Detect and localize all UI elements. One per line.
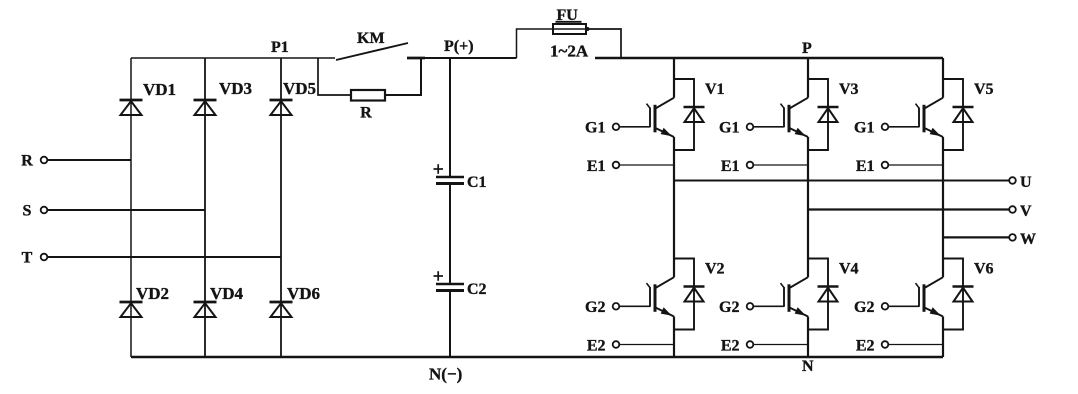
wire inverter leg 1 upper collector <box>673 58 675 98</box>
svg-text:C2: C2 <box>467 281 487 298</box>
svg-text:VD4: VD4 <box>210 284 244 303</box>
pin G2 of V4 <box>719 299 784 316</box>
pin E1 of V5 <box>856 158 943 175</box>
resistor R <box>351 90 385 122</box>
wire inverter leg 2 lower emitter <box>807 317 809 358</box>
svg-text:G2: G2 <box>854 299 874 316</box>
capacitor C1 <box>434 164 487 191</box>
svg-text:E2: E2 <box>721 338 740 355</box>
svg-text:E2: E2 <box>587 338 606 355</box>
wire FU riser right <box>586 27 622 58</box>
svg-text:V1: V1 <box>705 81 725 98</box>
svg-text:E1: E1 <box>721 158 740 175</box>
svg-text:W: W <box>1020 231 1036 248</box>
svg-text:N(−): N(−) <box>429 365 462 384</box>
terminal T <box>22 250 48 267</box>
wire T phase lead <box>48 256 282 258</box>
terminal U <box>1009 174 1032 191</box>
pin E2 of V6 <box>856 338 943 355</box>
svg-text:G2: G2 <box>719 299 739 316</box>
svg-text:S: S <box>23 203 32 220</box>
wire rectifier column 1 <box>130 58 132 357</box>
node N <box>802 358 814 375</box>
pin G1 of V1 <box>585 120 650 137</box>
terminal V <box>1009 203 1032 220</box>
diode VD4 <box>194 284 244 317</box>
wire S phase lead <box>48 209 206 211</box>
wire rectifier column 2 <box>204 58 206 357</box>
wire inverter leg 1 midsection <box>673 137 675 277</box>
svg-text:KM: KM <box>357 30 385 47</box>
pin G2 of V2 <box>585 299 650 316</box>
svg-text:G2: G2 <box>585 299 605 316</box>
wire inverter leg 2 upper collector <box>807 58 809 98</box>
wire R branch left <box>318 58 351 95</box>
svg-text:VD3: VD3 <box>219 79 252 98</box>
fuse FU <box>550 7 589 61</box>
svg-text:R: R <box>360 105 372 122</box>
wire R branch right <box>385 58 421 95</box>
freewheel diode of V1 <box>684 107 705 122</box>
svg-text:V4: V4 <box>839 261 859 278</box>
svg-text:VD6: VD6 <box>287 284 320 303</box>
wire inverter leg 1 lower emitter <box>673 317 675 358</box>
node P <box>802 40 812 57</box>
svg-text:VD1: VD1 <box>143 80 176 99</box>
wire top rail P segment <box>595 57 943 59</box>
node P1 <box>271 39 289 56</box>
pin E2 of V2 <box>587 338 674 355</box>
wire top rail P1 segment <box>131 57 335 59</box>
pin G2 of V6 <box>854 299 919 316</box>
contactor KM <box>336 30 408 60</box>
pin E2 of V4 <box>721 338 808 355</box>
svg-text:P1: P1 <box>271 39 289 56</box>
svg-text:U: U <box>1020 174 1032 191</box>
pin G1 of V5 <box>854 120 919 137</box>
svg-text:N: N <box>802 358 814 375</box>
pin E1 of V1 <box>587 158 674 175</box>
transistor V6 <box>916 261 994 317</box>
freewheel diode of V6 <box>953 287 974 302</box>
wire rail KM to FU riser <box>425 57 517 59</box>
svg-text:VD5: VD5 <box>283 79 316 98</box>
diode VD6 <box>270 284 321 317</box>
svg-text:G1: G1 <box>719 120 739 137</box>
transistor V5 <box>916 81 994 137</box>
diode VD2 <box>120 284 170 317</box>
wire KM fixed contact <box>407 57 425 60</box>
svg-text:P(+): P(+) <box>444 38 474 55</box>
svg-text:V3: V3 <box>839 81 859 98</box>
svg-text:1~2A: 1~2A <box>550 42 589 61</box>
wire FU riser left <box>517 29 554 58</box>
svg-text:V2: V2 <box>705 261 725 278</box>
wire diode bracket of V6 <box>943 259 963 330</box>
freewheel diode of V3 <box>818 107 839 122</box>
svg-text:C1: C1 <box>467 174 487 191</box>
svg-text:VD2: VD2 <box>136 284 169 303</box>
diode VD1 <box>120 80 177 115</box>
terminal R <box>21 153 47 170</box>
wire bottom rail N <box>131 356 943 358</box>
svg-text:T: T <box>22 250 33 267</box>
svg-text:E2: E2 <box>856 338 875 355</box>
transistor V2 <box>647 261 725 317</box>
pin G1 of V3 <box>719 120 784 137</box>
wire inverter leg 2 midsection <box>807 137 809 277</box>
freewheel diode of V4 <box>818 287 839 302</box>
svg-text:E1: E1 <box>587 158 606 175</box>
wire output V <box>808 208 1010 210</box>
transistor V4 <box>781 261 859 317</box>
wire inverter leg 3 lower emitter <box>942 317 944 358</box>
svg-text:V6: V6 <box>974 261 994 278</box>
terminal W <box>1009 231 1036 248</box>
svg-text:R: R <box>21 153 33 170</box>
svg-text:G1: G1 <box>585 120 605 137</box>
freewheel diode of V5 <box>953 107 974 122</box>
svg-text:G1: G1 <box>854 120 874 137</box>
wire R phase lead <box>48 159 132 161</box>
svg-text:V: V <box>1020 203 1032 220</box>
wire diode bracket of V3 <box>808 79 828 150</box>
wire inverter leg 3 upper collector <box>942 58 944 98</box>
transistor V3 <box>781 81 859 137</box>
terminal S <box>23 203 48 220</box>
transistor V1 <box>647 81 725 137</box>
node P(+) <box>444 38 474 55</box>
wire diode bracket of V2 <box>674 259 694 330</box>
wire output U <box>674 180 1010 182</box>
svg-text:P: P <box>802 40 812 57</box>
wire DC bus lower <box>449 292 451 357</box>
diode VD3 <box>194 79 253 115</box>
svg-text:V5: V5 <box>974 81 994 98</box>
diode VD5 <box>270 79 317 115</box>
wire diode bracket of V1 <box>674 79 694 150</box>
wire diode bracket of V4 <box>808 259 828 330</box>
pin E1 of V3 <box>721 158 808 175</box>
wire DC bus upper <box>449 58 451 176</box>
freewheel diode of V2 <box>684 287 705 302</box>
wire inverter leg 3 midsection <box>942 137 944 277</box>
svg-text:E1: E1 <box>856 158 875 175</box>
wire diode bracket of V5 <box>943 79 963 150</box>
capacitor C2 <box>434 271 487 298</box>
wire output W <box>943 236 1010 238</box>
wire DC bus middle <box>449 185 451 283</box>
wire rectifier column 3 <box>280 58 282 357</box>
node N(-) <box>429 365 462 384</box>
